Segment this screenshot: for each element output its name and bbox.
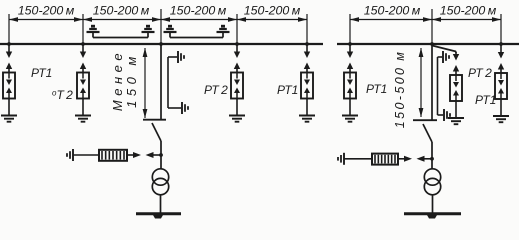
valve arrester FV1 resistor (hatched) <box>99 150 127 161</box>
svg-text:РТ1: РТ1 <box>475 93 496 107</box>
dimension line span 5, 150-200 m <box>350 4 432 22</box>
label PT1 (pole A1) <box>31 66 52 80</box>
wire: slant drop to arrester PT2, right figure <box>432 46 456 52</box>
wire: overhead line, right approach <box>337 43 519 45</box>
wire: transformer T1 to earthing bus <box>160 195 162 214</box>
node: FV2 tap on transformer lead <box>430 157 434 161</box>
node on line at pole A4 <box>235 42 239 46</box>
transformer T2 (right substation) <box>424 169 440 195</box>
wire+gap electrode of FV1 <box>127 152 141 158</box>
svg-text:150-200 м: 150-200 м <box>170 4 227 18</box>
tube arrester PT2 at pole A4 <box>229 44 245 122</box>
tube arrester PT1 at pole A5 <box>299 44 315 122</box>
dimension tick, pole A4 (x=237) <box>236 14 238 44</box>
tube arrester PT2 at station pole B2 <box>448 52 464 125</box>
disconnect switch S1 (open), left figure <box>143 120 166 169</box>
dimension line span 6, 150-200 m <box>432 4 501 22</box>
wire: transformer T2 to earthing bus <box>432 195 434 214</box>
earth of valve arrester FV2 <box>338 153 344 165</box>
dimension tick, pole B3 (x=501) <box>500 14 502 44</box>
wire: overhead line, left approach <box>0 43 323 45</box>
substation earth bus, left figure <box>136 214 181 219</box>
svg-text:150-500 м: 150-500 м <box>393 50 407 129</box>
label PT2 (right figure) <box>468 66 492 80</box>
shield wire over span 3 with insulators <box>164 25 230 38</box>
dimension line span 1, 150-200 m <box>9 4 83 22</box>
node on line at station pole A3 <box>159 42 163 46</box>
svg-text:РТ1: РТ1 <box>277 83 298 97</box>
node on line at station pole B2 <box>430 42 434 46</box>
dimension tick, pole B1 (x=350) <box>349 14 351 44</box>
svg-text:РТ 2: РТ 2 <box>204 83 228 97</box>
transformer T1 (left substation) <box>152 169 168 195</box>
earth at cable sheath bottom, right figure <box>444 109 450 121</box>
node on line at pole B1 <box>348 42 352 46</box>
tube arrester PT2 at pole A2 <box>75 44 91 122</box>
dimension tick, station pole A3 (x=161) <box>160 9 162 44</box>
svg-text:РТ1: РТ1 <box>31 66 52 80</box>
tube arrester PT1 at pole B3 <box>493 44 509 122</box>
wire: earth to valve arrester FV1 <box>73 154 99 156</box>
node on line at pole A1 <box>7 42 11 46</box>
svg-text:150 м: 150 м <box>124 52 139 108</box>
svg-text:150-200 м: 150-200 м <box>440 4 497 18</box>
dimension tick, pole A1 (x=9) <box>8 14 10 44</box>
gap electrode at bus side of FV2 <box>417 156 433 162</box>
dimension line span 2, 150-200 m <box>83 4 161 22</box>
svg-text:РТ1: РТ1 <box>366 82 387 96</box>
dimension tick, pole A2 (x=83) <box>82 14 84 44</box>
dimension line span 3, 150-200 m <box>161 4 237 22</box>
svg-text:150-200 м: 150-200 м <box>364 4 421 18</box>
disconnect switch S2 (open), right figure <box>413 120 437 169</box>
svg-text:150-200 м: 150-200 м <box>18 4 75 18</box>
vertical dimension '150-500 m' <box>419 48 424 117</box>
label 150 m (vertical) <box>124 52 139 108</box>
dimension tick, station pole B2 (x=432) <box>431 9 433 44</box>
valve arrester FV2 resistor (hatched) <box>372 154 398 165</box>
label PT2 (pole A2) <box>52 88 73 102</box>
label 150-500 m (vertical) <box>393 50 407 129</box>
dimension tick, pole A5 (x=307) <box>306 14 308 44</box>
cable sheath run with both-end earthing, left figure <box>168 57 181 108</box>
wire: drop from line to switch, right figure <box>431 44 433 120</box>
earth at cable sheath top, right figure <box>443 51 449 63</box>
label PT1 (pole B1) <box>366 82 387 96</box>
label Menee (less than) <box>110 49 125 111</box>
label PT2 (pole A4) <box>204 83 228 97</box>
earth at cable sheath top, left figure <box>178 51 184 63</box>
node on line at pole B3 <box>499 42 503 46</box>
dimension line span 4, 150-200 m <box>237 4 307 22</box>
vertical dimension 'Menee 150 m' <box>143 48 148 118</box>
earth of valve arrester FV1 <box>67 149 73 161</box>
gap electrode at bus side of FV1 <box>146 152 162 158</box>
label PT1 (pole A5) <box>277 83 298 97</box>
wire: earth to valve arrester FV2 <box>344 158 372 160</box>
wire: drop from line to switch, left figure <box>160 44 162 119</box>
label PT1 (pole B3) <box>475 93 496 107</box>
cable sheath run with both-end earthing, right figure <box>438 57 444 115</box>
tube arrester PT1 at pole B1 <box>342 44 358 122</box>
wire+gap electrode of FV2 <box>398 156 412 162</box>
node on line at pole A2 <box>81 42 85 46</box>
node: FV1 tap on transformer lead <box>159 153 163 157</box>
tube arrester PT1 at pole A1 <box>1 44 17 122</box>
svg-text:150-200 м: 150-200 м <box>93 4 150 18</box>
shield wire over span 2 with insulators <box>87 25 155 38</box>
substation earth bus, right figure <box>404 214 461 219</box>
earth at cable sheath bottom, left figure <box>182 102 188 114</box>
node on line at pole A5 <box>305 42 309 46</box>
svg-text:РТ 2: РТ 2 <box>468 66 492 80</box>
svg-text:150-200 м: 150-200 м <box>244 4 301 18</box>
svg-text:Менее: Менее <box>110 49 125 111</box>
